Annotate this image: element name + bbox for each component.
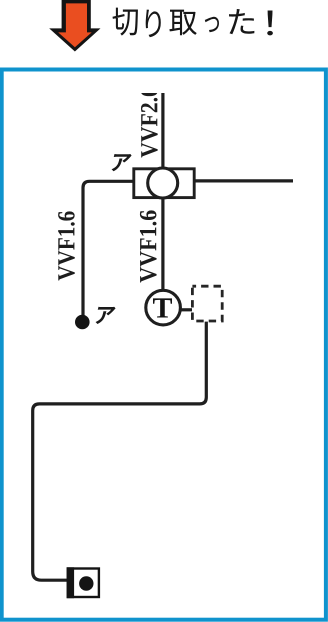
outlet box (square, thick left bar, dot) bbox=[67, 567, 99, 598]
label ア at junction bbox=[110, 154, 132, 171]
wire left branch to switch point bbox=[83, 181, 133, 316]
cut-out arrow (orange down arrow, black outline) bbox=[49, 0, 100, 52]
headline text 切り取った！ bbox=[113, 8, 273, 38]
connector timer to hidden box bbox=[180, 308, 192, 311]
label VVF2.0 (clipped at cut edge) bbox=[141, 87, 158, 158]
timer T (circle) bbox=[146, 290, 181, 325]
terminal dot (switch ア) bbox=[75, 315, 90, 330]
junction box with receptacle (rect + circle) bbox=[134, 168, 194, 198]
wire middle VVF1.6 (junction to timer) bbox=[161, 170, 164, 292]
wire right branch bbox=[195, 179, 293, 182]
label ア at dot bbox=[94, 307, 116, 324]
wire VVF2.0 (top feed, cut at top edge) bbox=[161, 93, 164, 172]
wire hidden box to outlet (down, left, down) bbox=[33, 322, 207, 581]
hidden box (dashed) bbox=[192, 286, 222, 321]
label VVF1.6 left bbox=[58, 211, 75, 280]
label VVF1.6 middle bbox=[140, 210, 157, 282]
